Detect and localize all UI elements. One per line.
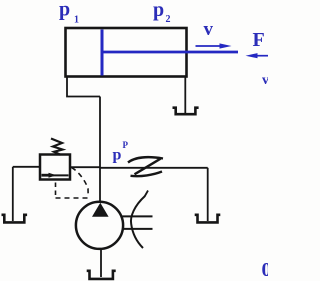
rotation arc arrowhead: [145, 191, 148, 197]
wire: left drop to tank: [12, 167, 14, 221]
pilot line (dashed horizontal to pump): [56, 197, 92, 199]
svg-text:p: p: [153, 0, 164, 21]
svg-text:2: 2: [166, 14, 171, 25]
wire: pump to bottom tank: [100, 249, 102, 277]
drive shaft lines: [123, 215, 153, 217]
svg-text:v: v: [204, 19, 214, 40]
pump triangle: [92, 203, 109, 217]
wire: left of relief valve: [13, 166, 40, 168]
cylinder body: [66, 28, 187, 77]
piston: [101, 30, 104, 76]
svg-text:v: v: [262, 73, 268, 88]
relief valve arrow: [42, 174, 69, 176]
pilot line (dashed diagonal): [72, 168, 89, 197]
svg-text:1: 1: [74, 15, 79, 26]
relief valve body: [40, 155, 70, 180]
relief valve spring: [51, 139, 63, 155]
wire: left cylinder port down: [67, 77, 100, 97]
svg-text:p: p: [113, 147, 122, 164]
svg-text:p: p: [59, 0, 70, 21]
tank bottom: [87, 271, 116, 279]
wire: right cylinder port down: [184, 77, 186, 113]
tank left: [2, 215, 28, 223]
wire: main vertical line: [99, 97, 101, 203]
pilot line (dashed vertical under valve): [55, 183, 57, 197]
piston rod: [103, 51, 238, 54]
svg-text:0: 0: [262, 259, 269, 281]
svg-text:P: P: [123, 140, 129, 150]
pump circle: [76, 202, 123, 249]
wire: right drop to tank: [207, 168, 209, 221]
svg-text:F: F: [253, 29, 265, 51]
tank under cylinder: [173, 108, 199, 115]
tank right: [195, 215, 221, 223]
wire: branch line left (valve to junction): [70, 166, 100, 168]
velocity arrow v: [196, 45, 224, 47]
rotation arc: [131, 196, 145, 248]
throttle valve: [128, 157, 163, 176]
wire: branch line right (junction to right tank drop): [100, 167, 208, 169]
force arrow F: [254, 55, 268, 57]
